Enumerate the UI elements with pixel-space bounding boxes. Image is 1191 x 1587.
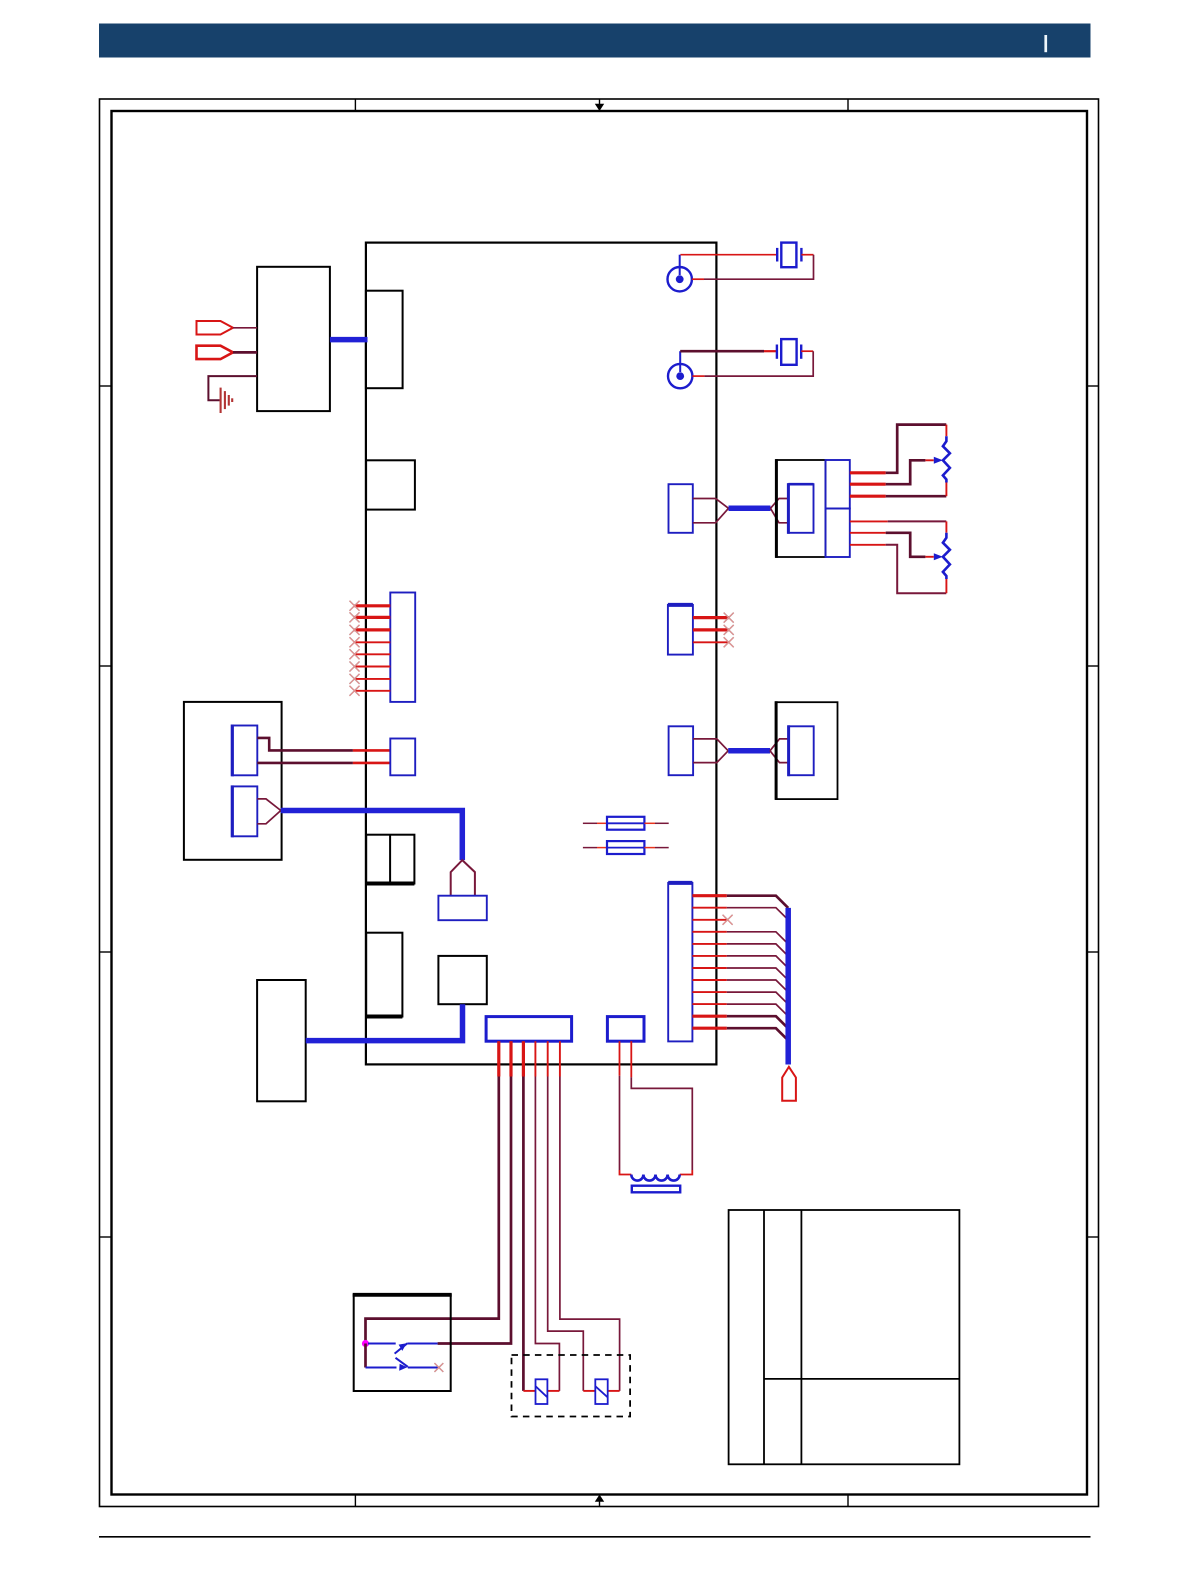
- wire AC2 to PS1: [233, 351, 257, 354]
- wire J10 pin4 to bus: [692, 932, 788, 944]
- M1 header B: [232, 785, 257, 837]
- wire JW pin3 to switch S1a: [523, 1041, 535, 1391]
- switch S1a: [536, 1379, 548, 1404]
- inductor core bar: [632, 1186, 680, 1193]
- bus wire vertical (right): [785, 908, 791, 1065]
- wire JW pin5 to switch S1b: [548, 1041, 596, 1391]
- bottom border alignment arrow: [595, 1495, 604, 1507]
- wire J10 pin7 to bus: [692, 968, 788, 980]
- header J3 (right column, audio out): [669, 484, 693, 533]
- header J7 (left edge, 8 pin no-connect): [390, 593, 415, 702]
- wire JW pin6 to switch S1b other side: [560, 1041, 620, 1391]
- left module M1 (line driver): [184, 702, 282, 860]
- fuse F2: [583, 841, 669, 854]
- dashed option box: [512, 1355, 631, 1417]
- wire J6 to bus taper: [693, 739, 728, 763]
- wire J10 pin9 to bus: [692, 992, 788, 1004]
- wire J10 pin11 to bus: [692, 1016, 788, 1028]
- capacitor C2: [777, 339, 801, 365]
- wire J3 to bus taper: [693, 499, 729, 523]
- wire U2 to VR1 wiper: [850, 460, 934, 484]
- switch S1b: [595, 1379, 607, 1404]
- wire J7 pin1 no-connect: [350, 601, 391, 611]
- sheet outer border frame: [100, 99, 1099, 1507]
- potentiometer VR1: [934, 436, 950, 482]
- wire J5 pin3 no-connect: [693, 637, 734, 647]
- connector P2 (left edge): [366, 460, 415, 509]
- connector P5 double header (left edge): [366, 835, 414, 884]
- headphone jack J11 box: [353, 1295, 452, 1391]
- M1 header A: [232, 725, 257, 777]
- sheet inner border frame: [112, 111, 1088, 1495]
- bus wire PS2 to U4: [306, 1004, 463, 1040]
- RCA jack J2: [668, 351, 692, 388]
- title block: [729, 1210, 960, 1464]
- wire U2 to VR1 bottom: [850, 483, 947, 497]
- wire J10 pin2 to bus: [692, 908, 788, 920]
- earth ground symbol: [221, 388, 233, 413]
- bus wire J3 to U2: [729, 506, 771, 512]
- wire C2 return to J2 shield: [692, 351, 813, 376]
- bus taper into U3: [770, 739, 789, 763]
- wire J10 pin1 to bus: [692, 896, 788, 908]
- wire JS pin2 around to inductor: [631, 1041, 692, 1174]
- wire C1 return to J1 shield: [692, 255, 814, 280]
- wire U2 to VR2 wiper: [850, 533, 934, 557]
- wire J10 pin6 to bus: [692, 956, 788, 968]
- wire J10 pin10 to bus: [692, 1004, 788, 1016]
- wire U2 to VR1 top: [850, 425, 947, 473]
- wire J10 pin5 to bus: [692, 944, 788, 956]
- wire J7 pin2 no-connect: [350, 612, 391, 622]
- module U4 (small black square): [438, 956, 486, 1004]
- wire J5 pin2 no-connect: [693, 625, 734, 635]
- junction dot (magenta): [362, 1340, 369, 1347]
- wire J7 pin3 no-connect: [350, 625, 391, 635]
- wire JW pin1 to headphone jack: [366, 1041, 499, 1343]
- header JW (wide, bottom of U1): [486, 1017, 571, 1042]
- wire M1 to J4 pin1: [257, 738, 390, 751]
- header J10 (right column, 12 pin): [668, 883, 692, 1042]
- interface module U3: [776, 701, 837, 800]
- power module PS1 (top left): [257, 267, 330, 411]
- connector P1 (top left edge): [366, 291, 403, 389]
- power block PS2 (bottom left): [257, 980, 306, 1101]
- capacitor C1: [777, 243, 801, 268]
- header JS (small, bottom of U1): [607, 1017, 644, 1042]
- amplifier module U2: [776, 459, 825, 558]
- wire J5 pin1 no-connect: [693, 613, 734, 623]
- port flag AC1: [197, 321, 234, 335]
- bus wire M1 to flag: [281, 811, 463, 861]
- wire U2 to VR2 bottom: [850, 545, 947, 593]
- top border alignment arrow: [595, 99, 604, 111]
- bus wire J6 to U3: [728, 748, 770, 754]
- no-connect X on contact 2: [435, 1363, 444, 1372]
- connector P6 (left edge, lower): [366, 933, 402, 1017]
- wire dot to lower contact: [364, 1344, 367, 1368]
- main board block U1: [366, 243, 717, 1065]
- wire J7 pin6 no-connect: [350, 662, 391, 672]
- inductor L1: [631, 1175, 679, 1181]
- power flag (red) below bus: [782, 1067, 796, 1101]
- bus taper from M1 header B: [257, 799, 281, 824]
- wire PS1 to earth: [208, 376, 257, 400]
- wire J7 pin4 no-connect: [350, 637, 391, 647]
- U2 inner header: [788, 483, 813, 534]
- jack contact arm 1: [368, 1343, 438, 1353]
- wire J1 tip to C1: [680, 254, 777, 256]
- wire J7 pin5 no-connect: [350, 649, 391, 659]
- U3 inner header: [789, 725, 814, 776]
- wire J7 pin8 no-connect: [350, 686, 391, 696]
- wire JS pin1 to inductor: [620, 1041, 632, 1174]
- header bar: [99, 24, 1091, 58]
- wire M1 to J4 pin2: [257, 762, 390, 765]
- wire J7 pin7 no-connect: [350, 674, 391, 684]
- wire U2 to VR2 top: [850, 521, 947, 532]
- header J5 (right column, no-connect): [668, 605, 693, 655]
- border zone tick marks: [100, 99, 1099, 1507]
- wire AC1 to PS1: [233, 327, 257, 329]
- header J4 (left edge of U1): [390, 739, 415, 776]
- net flag (maroon) above J9: [451, 860, 475, 896]
- page footer rule: [99, 1536, 1091, 1538]
- wire J2 tip to C2: [680, 350, 777, 353]
- port flag AC2: [197, 346, 234, 359]
- wire PS1 output bus to P1: [330, 337, 368, 343]
- U2 output header lower: [826, 509, 850, 558]
- potentiometer VR2: [934, 533, 950, 579]
- wire J10 pin8 to bus: [692, 980, 788, 992]
- wire JW pin2 to jack contact 1: [438, 1041, 511, 1343]
- header J9: [438, 896, 486, 921]
- wire JW pin4 to switch S1a other side: [535, 1041, 559, 1391]
- bus taper into U2: [771, 499, 789, 523]
- RCA jack J1: [668, 255, 692, 292]
- header J6 (right column): [669, 726, 694, 775]
- jack contact arm 2: [366, 1358, 439, 1371]
- wire J10 pin12 to bus: [692, 1028, 788, 1040]
- wire J10 pin3 no-connect: [692, 915, 732, 925]
- U2 output header upper: [826, 460, 850, 509]
- fuse F1: [583, 817, 669, 830]
